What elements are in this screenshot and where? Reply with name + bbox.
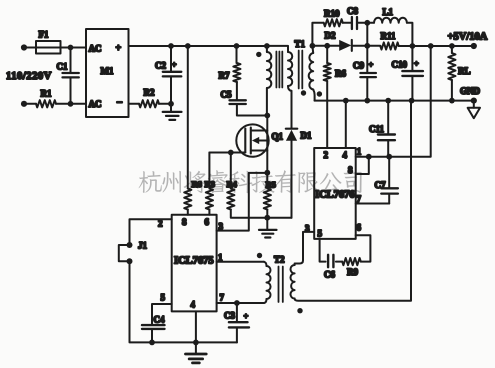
T2 secondary phase dot: [297, 308, 302, 313]
resistor R5: [266, 173, 268, 189]
node junction top-left: [68, 45, 74, 51]
svg-text:R3: R3: [205, 179, 215, 189]
T1 secondary winding: [311, 46, 314, 53]
node C2/R2/ground junction: [168, 101, 174, 107]
rectifier M1: [86, 29, 129, 117]
resistor R6 and pin2 lead: [326, 46, 328, 63]
capacitor C5: [236, 82, 238, 99]
svg-text:4: 4: [191, 300, 196, 310]
node R6 top: [324, 43, 330, 49]
capacitor C3: [236, 303, 238, 321]
wire junction down to C9 node: [366, 23, 368, 46]
capacitor C7: [388, 157, 390, 188]
wire pin 4 to gnd rail: [345, 101, 347, 148]
capacitor C11: [387, 101, 389, 134]
svg-text:C10: C10: [392, 60, 408, 70]
connector J1: [127, 242, 133, 248]
svg-text:AC: AC: [89, 44, 102, 54]
svg-text:+: +: [414, 59, 419, 69]
node C3 junction: [234, 300, 240, 306]
resistor R3: [208, 153, 210, 189]
node pin1 riser: [428, 43, 434, 49]
svg-text:R8: R8: [192, 179, 202, 189]
svg-text:1: 1: [357, 147, 362, 157]
svg-text:D1: D1: [301, 131, 312, 141]
svg-text:8: 8: [348, 165, 353, 175]
inductor L1: [374, 18, 407, 23]
resistor R1: [36, 100, 56, 107]
wire pin 1 to T2: [217, 261, 264, 263]
resistor R10: [324, 19, 343, 26]
svg-text:6: 6: [205, 217, 210, 227]
wire pin 6 to R9: [356, 235, 371, 261]
op-amp U1 ICL7675: [172, 215, 217, 312]
node R8 junction: [185, 43, 191, 49]
T1 core: [276, 51, 302, 89]
svg-text:R11: R11: [381, 31, 397, 41]
fuse F1: [36, 41, 61, 54]
svg-text:6: 6: [357, 223, 362, 233]
ground under C2: [170, 104, 172, 112]
node pin4 ground junction: [193, 340, 199, 346]
capacitor C4: [142, 325, 165, 329]
node C4 junction: [149, 340, 155, 346]
node C11/C7 junction: [386, 154, 392, 160]
node T1 secondary top: [310, 43, 316, 49]
node pin4 rail junction: [343, 98, 349, 104]
wire: [24, 103, 36, 105]
svg-text:C1: C1: [57, 62, 68, 72]
node pin8 junction: [366, 154, 372, 160]
wire C5 to drain node: [237, 105, 267, 115]
svg-text:R2: R2: [144, 88, 155, 98]
gnd rail: [315, 100, 474, 102]
svg-text:R6: R6: [335, 69, 346, 79]
svg-text:R10: R10: [324, 9, 340, 19]
resistor R7: [236, 46, 238, 63]
capacitor C9: [366, 46, 368, 72]
diode D1: [291, 127, 293, 130]
wire pin 8: [356, 157, 369, 174]
svg-text:C2: C2: [155, 61, 166, 71]
wire pin 7: [356, 203, 390, 205]
capacitor C2: [170, 46, 172, 71]
node C9 top: [364, 43, 370, 49]
resistor R11: [380, 42, 398, 49]
watermark text: [139, 171, 162, 193]
svg-text:C8: C8: [347, 6, 358, 16]
node C11 top rail: [385, 98, 391, 104]
svg-text:3: 3: [219, 222, 224, 232]
svg-text:110/220V: 110/220V: [6, 71, 52, 82]
svg-text:5: 5: [161, 293, 166, 303]
transformer T1 primary winding: [266, 46, 268, 52]
op-amp U2 ICL7676: [314, 148, 356, 239]
svg-text:R1: R1: [41, 89, 52, 99]
ground output symbol: [473, 101, 475, 108]
node C10/T2 return: [409, 98, 415, 104]
svg-text:8: 8: [182, 217, 187, 227]
svg-text:+: +: [116, 43, 122, 54]
resistor R4: [230, 153, 232, 189]
svg-text:L1: L1: [383, 7, 394, 17]
wire +5V rail: [399, 45, 474, 47]
wire: [159, 103, 171, 105]
svg-text:2: 2: [324, 150, 329, 160]
capacitor C1: [70, 48, 72, 72]
resistor R9: [342, 258, 361, 265]
node AC input top terminal: [21, 44, 27, 50]
node C8/L1 junction: [364, 20, 370, 26]
capacitor C8: [343, 22, 351, 24]
svg-text:GND: GND: [460, 86, 481, 96]
svg-text:4: 4: [343, 150, 348, 160]
svg-text:7: 7: [220, 293, 225, 303]
svg-text:C5: C5: [221, 90, 232, 100]
svg-text:R7: R7: [219, 71, 230, 81]
capacitor C6: [336, 261, 342, 263]
ground main: [195, 342, 197, 353]
wire D2 cathode: [352, 45, 380, 47]
wire J1 to bottom rail: [130, 261, 237, 342]
svg-text:D2: D2: [325, 31, 336, 41]
svg-text:C7: C7: [375, 180, 386, 190]
wire T1 sec top to D2: [312, 45, 339, 47]
snubber branch R10 C8 L1: [312, 23, 323, 46]
wire pin 7 to T2: [217, 302, 264, 304]
svg-text:Q1: Q1: [272, 132, 284, 142]
node R7 junction: [234, 43, 240, 49]
wire pin 4: [195, 311, 197, 342]
node AC input bottom terminal: [21, 101, 27, 107]
svg-text:5: 5: [318, 229, 323, 239]
svg-text:C11: C11: [369, 124, 385, 134]
node junction bottom-left: [68, 101, 74, 107]
svg-text:+: +: [172, 60, 177, 70]
svg-text:RL: RL: [458, 66, 471, 76]
svg-text:ICL7676: ICL7676: [315, 190, 355, 201]
wire top rail from M1 to T1: [129, 45, 267, 47]
svg-text:C9: C9: [353, 61, 364, 71]
svg-text:3: 3: [305, 224, 310, 234]
node Q1 source junction: [264, 170, 270, 176]
svg-text:R4: R4: [227, 179, 238, 189]
node Q1 drain junction: [264, 113, 270, 119]
wire pin 5: [152, 304, 172, 324]
diode D2: [339, 40, 351, 51]
svg-text:+5V/10A: +5V/10A: [448, 32, 488, 43]
T1 aux phase dot: [301, 90, 306, 95]
capacitor C10: [411, 46, 413, 70]
T2 primary phase dot: [257, 253, 262, 258]
svg-text:–: –: [116, 97, 123, 108]
ground under R5: [266, 218, 268, 230]
wire Q1 source to ICL7675 pin3: [217, 173, 268, 231]
T1 secondary phase dot: [317, 91, 322, 96]
node R5/ground junction: [264, 215, 270, 221]
wire gate: [209, 152, 245, 154]
svg-text:F1: F1: [39, 30, 49, 40]
svg-text:+: +: [244, 311, 249, 321]
svg-text:J1: J1: [138, 241, 148, 251]
transformer T2 primary winding: [264, 262, 267, 266]
wire M1 minus: [129, 103, 140, 105]
svg-text:M1: M1: [101, 66, 114, 76]
resistor R2: [139, 100, 159, 107]
node C2 junction: [168, 43, 174, 49]
svg-text:AC: AC: [89, 99, 102, 109]
resistor RL: [451, 46, 453, 53]
wire pin 1 to +5V: [356, 46, 431, 157]
node RL bottom: [449, 98, 455, 104]
svg-text:+: +: [369, 60, 374, 70]
svg-text:C3: C3: [224, 311, 235, 321]
wire: [24, 47, 86, 49]
T2 secondary winding: [295, 232, 315, 265]
node GND terminal: [471, 98, 477, 104]
node C10 top: [410, 43, 416, 49]
wire pin2 to J1: [130, 219, 172, 245]
wire: [56, 103, 86, 105]
resistor R8: [187, 46, 189, 189]
node +5V terminal: [471, 43, 477, 49]
svg-text:C4: C4: [154, 315, 165, 325]
node T1 primary top: [264, 43, 270, 49]
T2 core: [279, 267, 283, 303]
T1 auxiliary winding: [267, 46, 288, 52]
transistor Q1 MOSFET: [236, 124, 268, 156]
svg-text:T1: T1: [295, 39, 306, 49]
svg-text:ICL7675: ICL7675: [174, 256, 214, 267]
node gate/R4 junction: [228, 150, 234, 156]
svg-text:R9: R9: [347, 267, 358, 277]
svg-text:T2: T2: [274, 255, 285, 265]
node C9 bottom: [364, 98, 370, 104]
svg-text:R5: R5: [266, 180, 276, 190]
T1 primary phase dot: [256, 52, 261, 57]
node RL top: [449, 43, 455, 49]
svg-text:C6: C6: [324, 270, 335, 280]
